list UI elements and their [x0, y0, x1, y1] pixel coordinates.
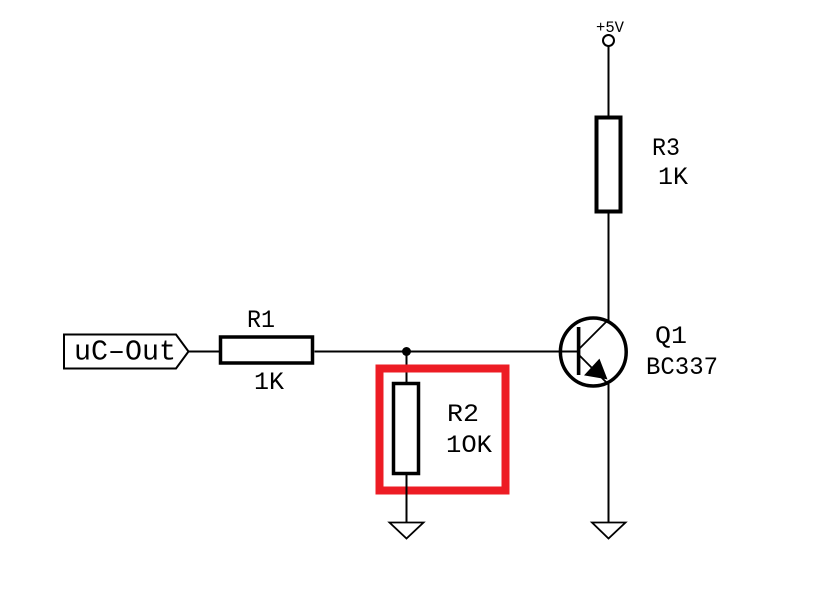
svg-text:Q1: Q1 — [655, 322, 687, 351]
wire R3 to collector — [608, 212, 610, 321]
net flag uC-Out — [64, 335, 189, 369]
wire emitter to ground — [608, 384, 610, 522]
wire flag to R1 — [189, 351, 220, 353]
svg-text:R2: R2 — [447, 400, 479, 429]
svg-text:1K: 1K — [658, 163, 688, 192]
ground under Q1 — [592, 523, 626, 539]
Q1 emitter diagonal — [579, 355, 608, 384]
svg-text:BC337: BC337 — [646, 353, 718, 382]
transistor Q1 body circle — [560, 318, 626, 386]
resistor R2 — [394, 384, 419, 474]
wire R1 to Q1 base — [315, 351, 578, 353]
Q1 collector diagonal — [579, 319, 609, 349]
resistor R3 — [597, 118, 621, 212]
Q1 emitter arrow — [587, 361, 606, 378]
svg-text:R3: R3 — [652, 134, 680, 163]
wire +5V to R3 — [608, 46, 610, 117]
Q1 base bar — [577, 327, 581, 375]
resistor R1 — [221, 337, 313, 363]
junction node — [402, 347, 411, 356]
svg-text:uC–Out: uC–Out — [74, 336, 176, 369]
highlight box (red) — [380, 369, 506, 491]
svg-text:1K: 1K — [254, 368, 284, 397]
svg-text:1OK: 1OK — [446, 431, 492, 460]
ground under R2 — [390, 523, 424, 539]
svg-text:+5V: +5V — [596, 19, 624, 37]
power +5V symbol — [603, 35, 614, 46]
wire R2 to ground — [406, 475, 408, 522]
wire junction to R2 — [406, 352, 408, 384]
svg-text:R1: R1 — [247, 306, 275, 335]
